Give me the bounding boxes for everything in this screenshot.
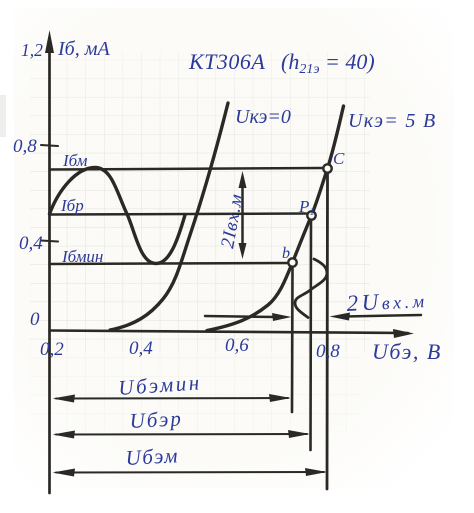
svg-text:1,2: 1,2: [21, 40, 43, 60]
point b: [288, 258, 296, 266]
svg-text:Uбэр: Uбэр: [129, 406, 183, 433]
vertical arrow 2Ivxm shaft: [241, 178, 244, 252]
svg-text:Uкэ=0: Uкэ=0: [235, 106, 291, 128]
svg-text:0,8: 0,8: [316, 341, 340, 362]
Ubemin right arrowhead: [269, 394, 291, 402]
svg-text:Iбмин: Iбмин: [61, 247, 103, 266]
grid squared paper: [30, 52, 370, 352]
output sideways sine: [295, 259, 327, 318]
bottom arrow Ubemin shaft: [56, 397, 288, 400]
svg-text:0,8: 0,8: [13, 136, 37, 157]
level line Ibmin: [50, 263, 288, 264]
bottom arrow Uber shaft: [56, 433, 307, 436]
x axis arrowhead: [393, 329, 414, 338]
drop line from b: [291, 267, 294, 412]
Ubem left arrowhead: [53, 469, 76, 477]
x axis: [50, 331, 409, 334]
curve Uke=0: [110, 103, 228, 330]
svg-text:(h21э = 40): (h21э = 40): [281, 49, 375, 77]
2Uvxm left-pointing arrowhead at C line: [330, 313, 351, 321]
point C: [323, 164, 331, 172]
tick y 0.8: [41, 145, 58, 146]
svg-text:b: b: [282, 245, 290, 262]
input sine wave: [50, 168, 186, 264]
level line Ibm: [50, 168, 323, 170]
svg-text:0,4: 0,4: [129, 338, 153, 359]
svg-text:Uкэ= 5 В: Uкэ= 5 В: [348, 110, 436, 132]
measure line 2Uvxm right segment: [344, 315, 421, 317]
point P: [307, 211, 315, 219]
curve Uke=5V: [207, 106, 344, 331]
svg-text:Iбр: Iбр: [60, 196, 84, 215]
measure line 2Uvxm left segment: [205, 316, 276, 317]
Uber left arrowhead: [53, 431, 76, 439]
y axis: [48, 40, 51, 493]
level line Ibr: [50, 214, 307, 215]
svg-text:Iбм: Iбм: [62, 151, 88, 170]
2Ivxm bottom arrowhead: [239, 243, 247, 259]
Uber right arrowhead: [288, 430, 310, 438]
svg-text:0,2: 0,2: [40, 339, 64, 360]
Ubemin left arrowhead: [53, 395, 76, 403]
Ubem right arrowhead: [305, 468, 327, 476]
2Uvxm right-pointing arrowhead at b line: [272, 313, 292, 321]
svg-text:0: 0: [30, 309, 40, 330]
svg-text:Uбэм: Uбэм: [125, 443, 179, 470]
bottom arrow Ubem shaft: [56, 471, 324, 474]
svg-text:Uбэ, В: Uбэ, В: [372, 339, 442, 364]
y axis arrowhead: [45, 30, 54, 53]
svg-text:Iб, мА: Iб, мА: [57, 38, 110, 60]
svg-text:C: C: [333, 149, 345, 168]
svg-text:КТ306А: КТ306А: [188, 49, 265, 74]
left edge smudge: [0, 95, 6, 137]
tick y 0.4: [41, 241, 58, 242]
svg-text:0,6: 0,6: [225, 335, 249, 356]
svg-text:0,4: 0,4: [19, 233, 43, 254]
drop line from C: [326, 173, 329, 489]
2Ivxm top arrowhead: [239, 171, 247, 188]
drop line from P: [309, 220, 312, 450]
